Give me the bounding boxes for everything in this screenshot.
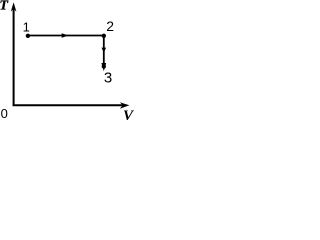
svg-text:1: 1 — [23, 19, 30, 34]
label 2 — [106, 18, 114, 34]
V axis arrowhead — [120, 102, 130, 109]
axis label T — [0, 0, 9, 13]
label 3 — [104, 69, 112, 86]
arrow on segment 1-2 — [62, 33, 69, 38]
svg-text:0: 0 — [1, 106, 8, 121]
T axis (vertical) — [13, 6, 15, 105]
node point 3 with terminal arrowhead — [102, 64, 106, 68]
svg-text:2: 2 — [106, 18, 114, 34]
wire isochore 2-3 (vertical segment) — [103, 36, 105, 67]
T axis arrowhead — [11, 2, 17, 12]
wire isotherm 1-2 (horizontal segment) — [28, 35, 104, 37]
label 1 — [23, 19, 30, 34]
axis label V — [123, 108, 135, 124]
svg-text:3: 3 — [104, 69, 112, 86]
node point 1 — [26, 34, 30, 38]
V axis (horizontal) — [13, 104, 124, 106]
origin label 0 — [1, 106, 8, 121]
arrow on segment 2-3 — [102, 48, 107, 53]
node point 2 — [102, 34, 106, 38]
